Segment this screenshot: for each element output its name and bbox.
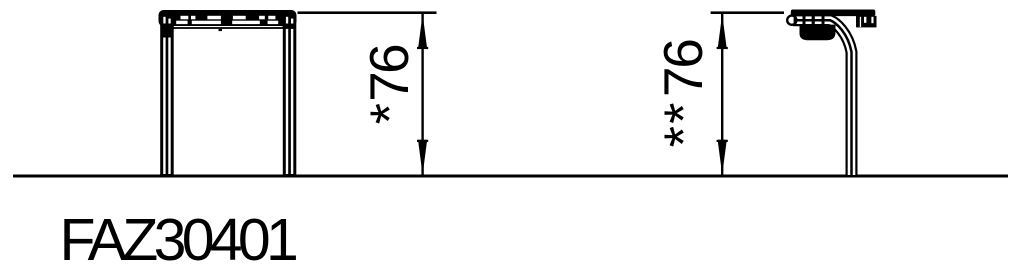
svg-text:**76: **76: [652, 38, 714, 147]
svg-text:*76: *76: [358, 43, 420, 124]
svg-text:FAZ30401: FAZ30401: [60, 207, 297, 273]
